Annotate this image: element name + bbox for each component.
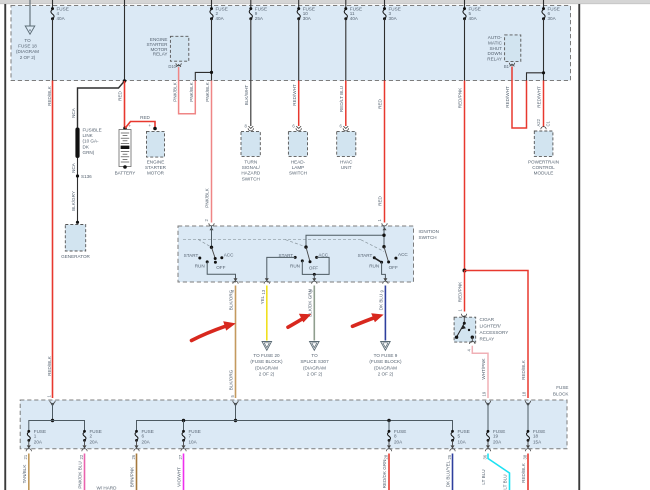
label FUSE BLOCK (bottom box) (553, 385, 570, 396)
wire RED battery feed (124, 81, 126, 128)
wire RED/BLK exit 38 (527, 454, 529, 490)
svg-text:AUTO-: AUTO- (488, 35, 503, 40)
page right border (578, 4, 580, 490)
fuse block box (top) (11, 6, 571, 81)
svg-text:FUSE: FUSE (556, 385, 568, 390)
node cigar relay junction (463, 269, 467, 273)
fuse block fuse F1 (20A) (27, 429, 46, 445)
wire fuse2 to junction (black) (211, 19, 213, 81)
wire RED/PNK fuse5 down to cigar relay junction (464, 81, 466, 271)
wire group3 RUN to exit 9 (382, 262, 386, 280)
svg-text:2: 2 (90, 434, 93, 439)
svg-text:40A: 40A (350, 16, 359, 21)
svg-text:W/ HARD: W/ HARD (97, 486, 118, 490)
svg-text:TO FUSE 20: TO FUSE 20 (253, 353, 280, 358)
svg-text:BATTERY: BATTERY (115, 171, 136, 176)
wire fuse4 to border (black) (52, 19, 54, 81)
svg-text:2 OF 2): 2 OF 2) (259, 372, 275, 377)
svg-text:SWITCH: SWITCH (419, 235, 437, 240)
wire entry 5 to bus (235, 403, 237, 421)
fuse F6 (FUSE 6 30A) (542, 0, 560, 21)
terminal exit 36 (482, 440, 490, 459)
off-page connector B (triangle) (262, 342, 272, 351)
group3 start-run blade (374, 258, 381, 263)
ignition switch group 1 feed wire (211, 226, 213, 247)
battery B1 (115, 130, 136, 176)
svg-text:ACC: ACC (318, 252, 328, 257)
fuse block fuse F8 (20A) (388, 429, 407, 445)
svg-text:(10 GA-: (10 GA- (83, 139, 100, 144)
svg-text:40A: 40A (216, 16, 225, 21)
svg-text:SWITCH: SWITCH (242, 176, 260, 181)
terminal exit 21 (23, 440, 31, 459)
svg-text:RUN: RUN (290, 263, 300, 268)
svg-text:5: 5 (458, 434, 461, 439)
wire RED/BLK fuse4 down to fuse block entry 1 (52, 81, 54, 399)
wire group2 loop to exit 6 (313, 274, 315, 280)
svg-text:6: 6 (142, 434, 145, 439)
terminal fuse block entry 18 (522, 391, 531, 406)
svg-text:20A: 20A (34, 440, 43, 445)
group3 blade (384, 247, 388, 262)
wire RED/DK GRN exit 28 (388, 454, 390, 490)
svg-text:SIGNAL/: SIGNAL/ (242, 165, 261, 170)
terminal exit 38 (522, 440, 530, 459)
automatic shut down relay box (487, 35, 521, 62)
svg-text:MOTOR: MOTOR (147, 171, 165, 176)
svg-text:ACC: ACC (224, 252, 234, 257)
terminal HVAC unit (339, 124, 348, 131)
svg-text:D10: D10 (168, 64, 176, 69)
svg-text:8: 8 (394, 434, 397, 439)
svg-text:PNK/BLK: PNK/BLK (189, 81, 194, 101)
svg-text:TO: TO (24, 38, 31, 43)
fuse F4 (FUSE 4 40A) (51, 0, 69, 21)
engine starter motor box (145, 131, 167, 175)
svg-text:WHT/PNK: WHT/PNK (481, 357, 486, 379)
svg-text:13: 13 (261, 289, 266, 294)
svg-text:BLK/GRY: BLK/GRY (71, 191, 76, 211)
svg-text:CIGAR: CIGAR (480, 317, 495, 322)
node bus2 fuse8 junction (387, 419, 390, 422)
svg-text:26: 26 (131, 454, 136, 459)
svg-text:RED: RED (140, 115, 150, 120)
svg-text:RED/WHT: RED/WHT (292, 84, 297, 106)
svg-text:28: 28 (383, 454, 388, 459)
terminal ignition entry right (377, 219, 387, 231)
svg-text:(FUSE BLOCK): (FUSE BLOCK) (369, 359, 402, 364)
fuse block box (bottom) (20, 400, 567, 449)
wire PNK/DK BLU exit 22 (84, 454, 86, 490)
svg-text:40A: 40A (57, 16, 66, 21)
terminal ignition exit 13 (261, 278, 269, 294)
node group3 START contact (373, 256, 376, 259)
node group2 loop junction (313, 273, 316, 276)
ignition switch group 3 feed wire (383, 226, 385, 247)
svg-text:LT BLU: LT BLU (481, 469, 486, 484)
engine starter motor relay box (146, 36, 188, 61)
svg-text:S136: S136 (81, 174, 92, 179)
wire entry 18 to fuse 18 (527, 403, 529, 431)
fuse block fuse F5 (10A) (451, 429, 470, 445)
svg-text:SWITCH: SWITCH (289, 171, 307, 176)
node group3 OFF/tip contact (387, 261, 390, 264)
terminal PCM A22 (541, 127, 546, 130)
wire entry 19 to fuse 19 (487, 403, 489, 431)
svg-text:2 OF 2): 2 OF 2) (20, 55, 36, 60)
svg-text:TO FUSE 9: TO FUSE 9 (374, 353, 398, 358)
terminal ignition exit 6 (309, 278, 317, 292)
fuse F2 (FUSE 2 40A) (210, 0, 228, 21)
off-page connector C (triangle) (310, 342, 320, 351)
svg-text:START: START (358, 253, 373, 258)
svg-text:22: 22 (79, 454, 84, 459)
svg-text:PNK/BLK: PNK/BLK (205, 187, 210, 207)
wire entry 1 to bus (52, 403, 54, 421)
fuse F3 (FUSE 3 30A) (383, 0, 401, 21)
terminal exit 22 (79, 440, 87, 459)
terminal exit 25 (447, 440, 455, 459)
node junction fuse6 / B1 loop (542, 71, 545, 74)
annotation arrow 1 (192, 321, 236, 340)
svg-text:BLOCK: BLOCK (553, 391, 570, 396)
svg-text:36: 36 (482, 454, 487, 459)
node group2 RUN contact (301, 259, 304, 262)
node group2 ACC contact (315, 256, 318, 259)
svg-text:HVAC: HVAC (340, 160, 353, 165)
head-lamp switch box (288, 131, 307, 175)
svg-text:VIO/WHT: VIO/WHT (177, 467, 182, 487)
wire TAN/BLK exit 21 (28, 454, 30, 490)
fuse block fuse F18 (15A) (527, 429, 546, 445)
svg-text:30A: 30A (548, 16, 557, 21)
svg-text:25A: 25A (255, 16, 264, 21)
svg-text:18: 18 (533, 434, 539, 439)
off-page connector D (triangle) (381, 342, 391, 351)
node group2 pivot (304, 245, 307, 248)
top chrome strip (0, 0, 650, 4)
svg-text:OFF: OFF (389, 265, 398, 270)
wire fuse6 to junction (black) (543, 19, 545, 81)
node battery + terminal (123, 127, 127, 131)
node group1 OFF contact (214, 261, 217, 264)
svg-text:PNK/BLK: PNK/BLK (172, 81, 177, 101)
svg-text:POWERTRAIN: POWERTRAIN (528, 160, 559, 165)
node group1 ACC contact (220, 256, 223, 259)
svg-text:GENERATOR: GENERATOR (61, 254, 90, 259)
wire group2 START to exit 13 (267, 257, 295, 280)
node group1 RUN contact (206, 260, 209, 263)
svg-text:RED/BLK: RED/BLK (521, 462, 526, 483)
svg-text:RUN: RUN (369, 263, 379, 268)
svg-text:SHUT: SHUT (489, 46, 502, 51)
svg-text:15A: 15A (533, 440, 542, 445)
svg-text:TURN: TURN (244, 160, 257, 165)
bus 2 (137, 421, 453, 432)
svg-text:BLK/ORG: BLK/ORG (229, 369, 234, 390)
wire RED/BLK junction to fuse block entry 18 (465, 271, 529, 399)
svg-text:MODULE: MODULE (534, 171, 554, 176)
svg-text:1: 1 (34, 434, 37, 439)
svg-text:RED/PNK: RED/PNK (458, 281, 463, 302)
fuse block fuse F19 (20A) (487, 429, 506, 445)
pin B1 (504, 63, 515, 69)
svg-text:RED/DK GRN: RED/DK GRN (382, 460, 387, 489)
svg-text:19: 19 (482, 391, 487, 396)
svg-text:A: A (29, 28, 32, 33)
svg-text:TAN/BLK: TAN/BLK (22, 464, 27, 484)
wire WHT/PNK cigar relay to fuse block entry 19 (472, 346, 488, 398)
svg-text:ACC: ACC (398, 252, 408, 257)
svg-text:NCA: NCA (71, 162, 76, 173)
svg-text:PNK/DK BLU: PNK/DK BLU (78, 461, 83, 488)
wire fuse5 to border (black) (464, 19, 466, 81)
fuse F11 (FUSE 11 40A) (344, 0, 362, 21)
wire fuse10 to border (black) (298, 19, 300, 81)
terminal headlamp switch (292, 124, 301, 131)
wire bus2 to fuse8 (388, 421, 390, 432)
wire RED/WHT fuse6 to PCM A22 (543, 81, 545, 128)
svg-text:DK BLU: DK BLU (379, 294, 384, 311)
wire fuse11 to border (black) (345, 19, 347, 81)
svg-text:RED: RED (118, 90, 123, 100)
fuse block fuse F7 (10A) (182, 429, 201, 445)
svg-text:MATIC: MATIC (488, 41, 503, 46)
svg-text:RED/BLK: RED/BLK (47, 85, 52, 106)
terminal ignition entry left (204, 219, 214, 231)
wire fusible link to generator (77, 158, 79, 222)
svg-text:(DIAGRAM: (DIAGRAM (374, 365, 397, 370)
terminal exit 26 (131, 440, 139, 459)
main battery feed line (top) (124, 0, 126, 81)
terminal cigar relay 1 (458, 309, 467, 320)
svg-text:A22: A22 (536, 118, 541, 126)
ignition switch box (178, 226, 414, 282)
svg-text:TO: TO (311, 353, 318, 358)
node group2 blade tip / OFF (309, 260, 312, 263)
svg-text:RUN: RUN (195, 263, 205, 268)
label IGNITION SWITCH (419, 229, 439, 240)
svg-text:ENGINE: ENGINE (147, 160, 165, 165)
node bus1 junction (51, 419, 54, 422)
svg-text:20A: 20A (90, 440, 99, 445)
wire BLK/WHT fuse9 to turn signal switch (250, 19, 252, 126)
wire BLK/ORG ignition to fuse block entry 5 (235, 286, 237, 399)
svg-text:BLK/WHT: BLK/WHT (244, 85, 249, 106)
fuse F5 (FUSE 5 40A) (463, 0, 481, 21)
svg-text:BLK/ORG: BLK/ORG (229, 289, 234, 310)
svg-text:38: 38 (522, 454, 527, 459)
wire loop top (black, inside box) (527, 73, 544, 81)
svg-text:FUSIBLE: FUSIBLE (83, 128, 102, 133)
group2 blade (306, 247, 310, 261)
svg-text:DOWN: DOWN (487, 51, 502, 56)
fuse F10 (FUSE 10 30A) (297, 0, 315, 21)
svg-text:40A: 40A (469, 16, 478, 21)
node: junction battery feed (123, 79, 127, 83)
terminal fuse block entry 19 (482, 391, 491, 406)
wire VIO/WHT exit 27 (183, 454, 185, 490)
terminal ignition exit 4 (230, 278, 238, 292)
HVAC unit box (337, 131, 356, 170)
svg-text:DK: DK (83, 144, 90, 149)
wire DK BLU/YEL exit 25 (452, 454, 454, 490)
svg-text:IGNITION: IGNITION (419, 229, 439, 234)
node bus2 fuse7 junction (182, 419, 185, 422)
svg-text:10A: 10A (189, 440, 198, 445)
annotation arrow 3 (353, 313, 384, 326)
label TO FUSE 18 (DIAGRAM 2 OF 2) (16, 38, 39, 60)
wire loop upper (black, inside box) (195, 72, 211, 80)
svg-text:19: 19 (493, 434, 499, 439)
terminal exit 27 (178, 440, 186, 459)
svg-text:18: 18 (522, 391, 527, 396)
wire PNK/BLK relay D10 down-loop (179, 67, 196, 114)
svg-text:RED/LT BLU: RED/LT BLU (339, 86, 344, 112)
node group1 blade tip (214, 257, 217, 260)
svg-text:ACCESSORY: ACCESSORY (480, 330, 509, 335)
svg-text:NCA: NCA (71, 107, 76, 118)
node group2 START contact (294, 256, 297, 259)
wire RED/PNK junction to cigar relay (464, 271, 466, 312)
svg-text:PNK/BLK: PNK/BLK (205, 81, 210, 101)
fuse F9 (FUSE 9 25A) (249, 0, 267, 21)
svg-text:RELAY: RELAY (487, 56, 502, 61)
svg-text:HAZARD: HAZARD (241, 171, 261, 176)
svg-text:2 OF 2): 2 OF 2) (307, 372, 323, 377)
fuse block fuse F6 (20A) (135, 429, 154, 445)
svg-text:30A: 30A (389, 16, 398, 21)
label TO SPLICE S307 (DIAGRAM 2 OF 2) (300, 353, 329, 377)
svg-text:CONTROL: CONTROL (532, 165, 555, 170)
wire RED/WHT fuse10 to headlamp switch (298, 81, 300, 127)
terminal fuse block entry 1 (47, 395, 56, 407)
svg-text:7: 7 (189, 434, 192, 439)
svg-text:(DIAGRAM: (DIAGRAM (303, 365, 326, 370)
terminal ignition exit 9 (380, 278, 388, 292)
svg-text:2 OF 2): 2 OF 2) (378, 372, 394, 377)
pin D10 (168, 63, 181, 69)
svg-text:BRN/PNK: BRN/PNK (130, 466, 135, 487)
wire PNK/BLK to ignition switch (211, 81, 213, 223)
svg-text:RELAY: RELAY (153, 52, 168, 57)
node S136 (76, 174, 92, 179)
label TO FUSE 20 (FUSE BLOCK) (DIAGRAM 2 OF 2) (250, 353, 283, 377)
wire DK BLU to off-page D (384, 286, 386, 341)
terminal turn signal switch (244, 124, 253, 131)
wire RED/LT BLU fuse11 to HVAC unit (345, 81, 347, 127)
group1 blade (212, 247, 216, 258)
svg-text:STARTER: STARTER (145, 165, 167, 170)
node starter motor terminal (153, 127, 157, 131)
fuse block fuse F2 (20A) (83, 429, 102, 445)
wire bus2 to fuse7 (183, 421, 185, 432)
svg-text:OFF: OFF (216, 265, 225, 270)
node junction fuse2 / relay loop (210, 71, 213, 74)
svg-text:20A: 20A (493, 440, 502, 445)
svg-text:SPLICE S307: SPLICE S307 (300, 359, 329, 364)
powertrain control module box (528, 131, 559, 176)
terminal fuse block entry 5 (230, 395, 238, 407)
svg-text:DK BLU/YEL: DK BLU/YEL (446, 460, 451, 487)
node group1 START contact (198, 257, 201, 260)
svg-text:RED/BLK: RED/BLK (521, 359, 526, 380)
svg-text:RED/WHT: RED/WHT (505, 86, 510, 108)
page left border (4, 4, 6, 490)
svg-text:25: 25 (447, 454, 452, 459)
svg-text:B1: B1 (504, 64, 510, 69)
svg-text:RED/PNK: RED/PNK (458, 87, 463, 108)
svg-text:20A: 20A (142, 440, 151, 445)
terminal cigar relay 4 (466, 337, 475, 351)
wire LT BLU exit 36 (488, 454, 510, 490)
svg-text:20A: 20A (394, 440, 403, 445)
off-page connector A feed wire (29, 0, 31, 26)
bus 1 (29, 421, 85, 432)
node group3 RUN contact (380, 261, 383, 264)
svg-text:LAMP: LAMP (292, 165, 305, 170)
wire group1 RUN to exit 4 (207, 262, 235, 280)
svg-text:YEL: YEL (260, 295, 265, 304)
mechanical linkage (dashed) (183, 239, 384, 251)
svg-text:BLK/DK GRN: BLK/DK GRN (308, 289, 313, 317)
svg-text:RED: RED (378, 195, 383, 205)
turn signal / hazard switch box (241, 131, 261, 181)
cigar relay contacts (455, 316, 474, 339)
wire group2 accessory loop (302, 257, 329, 274)
svg-text:LINK: LINK (83, 133, 94, 138)
svg-text:(DIAGRAM: (DIAGRAM (16, 49, 39, 54)
terminal exit 28 (383, 440, 391, 459)
svg-text:RED/BLK: RED/BLK (47, 355, 52, 376)
wire RED battery to starter motor (125, 122, 155, 129)
node bus2 feed junction (234, 419, 237, 422)
svg-text:21: 21 (23, 454, 28, 459)
svg-text:GRN): GRN) (83, 150, 95, 155)
wire BRN/PNK exit 26 (136, 454, 138, 490)
ignition switch group 2 feed wire (306, 235, 384, 247)
node group3 ACC contact (394, 257, 397, 260)
svg-text:27: 27 (178, 454, 183, 459)
svg-text:RED/WHT: RED/WHT (537, 86, 542, 108)
svg-text:LIGHTER/: LIGHTER/ (480, 324, 502, 329)
svg-text:C1: C1 (546, 120, 551, 126)
off-page connector A (triangle) (25, 26, 35, 34)
svg-text:FUSE 18: FUSE 18 (18, 44, 37, 49)
svg-text:UNIT: UNIT (341, 165, 352, 170)
svg-text:(DIAGRAM: (DIAGRAM (255, 365, 278, 370)
node group3 pivot (382, 245, 385, 248)
node generator terminal (76, 221, 79, 224)
svg-text:START: START (184, 253, 199, 258)
label TO FUSE 9 (FUSE BLOCK) (DIAGRAM 2 OF 2) (369, 353, 402, 377)
wire BLK/DK GRN to off-page C (313, 286, 315, 341)
svg-text:(FUSE BLOCK): (FUSE BLOCK) (250, 359, 283, 364)
wire YEL to off-page B (266, 286, 268, 341)
svg-text:10A: 10A (458, 440, 467, 445)
cigar lighter/accessory relay box (454, 317, 508, 342)
annotation arrow 2 (288, 314, 311, 327)
generator box (61, 225, 90, 260)
svg-text:RELAY: RELAY (480, 337, 495, 342)
node group3 feed junction (382, 234, 385, 237)
node group1 pivot (210, 246, 213, 249)
svg-text:LT BLU: LT BLU (503, 474, 508, 489)
svg-text:HEAD-: HEAD- (291, 160, 306, 165)
wire NCA elbow to fusible link (78, 81, 125, 128)
fusible link (10 GA DK GRN) (75, 128, 101, 159)
svg-text:RED: RED (378, 98, 383, 108)
